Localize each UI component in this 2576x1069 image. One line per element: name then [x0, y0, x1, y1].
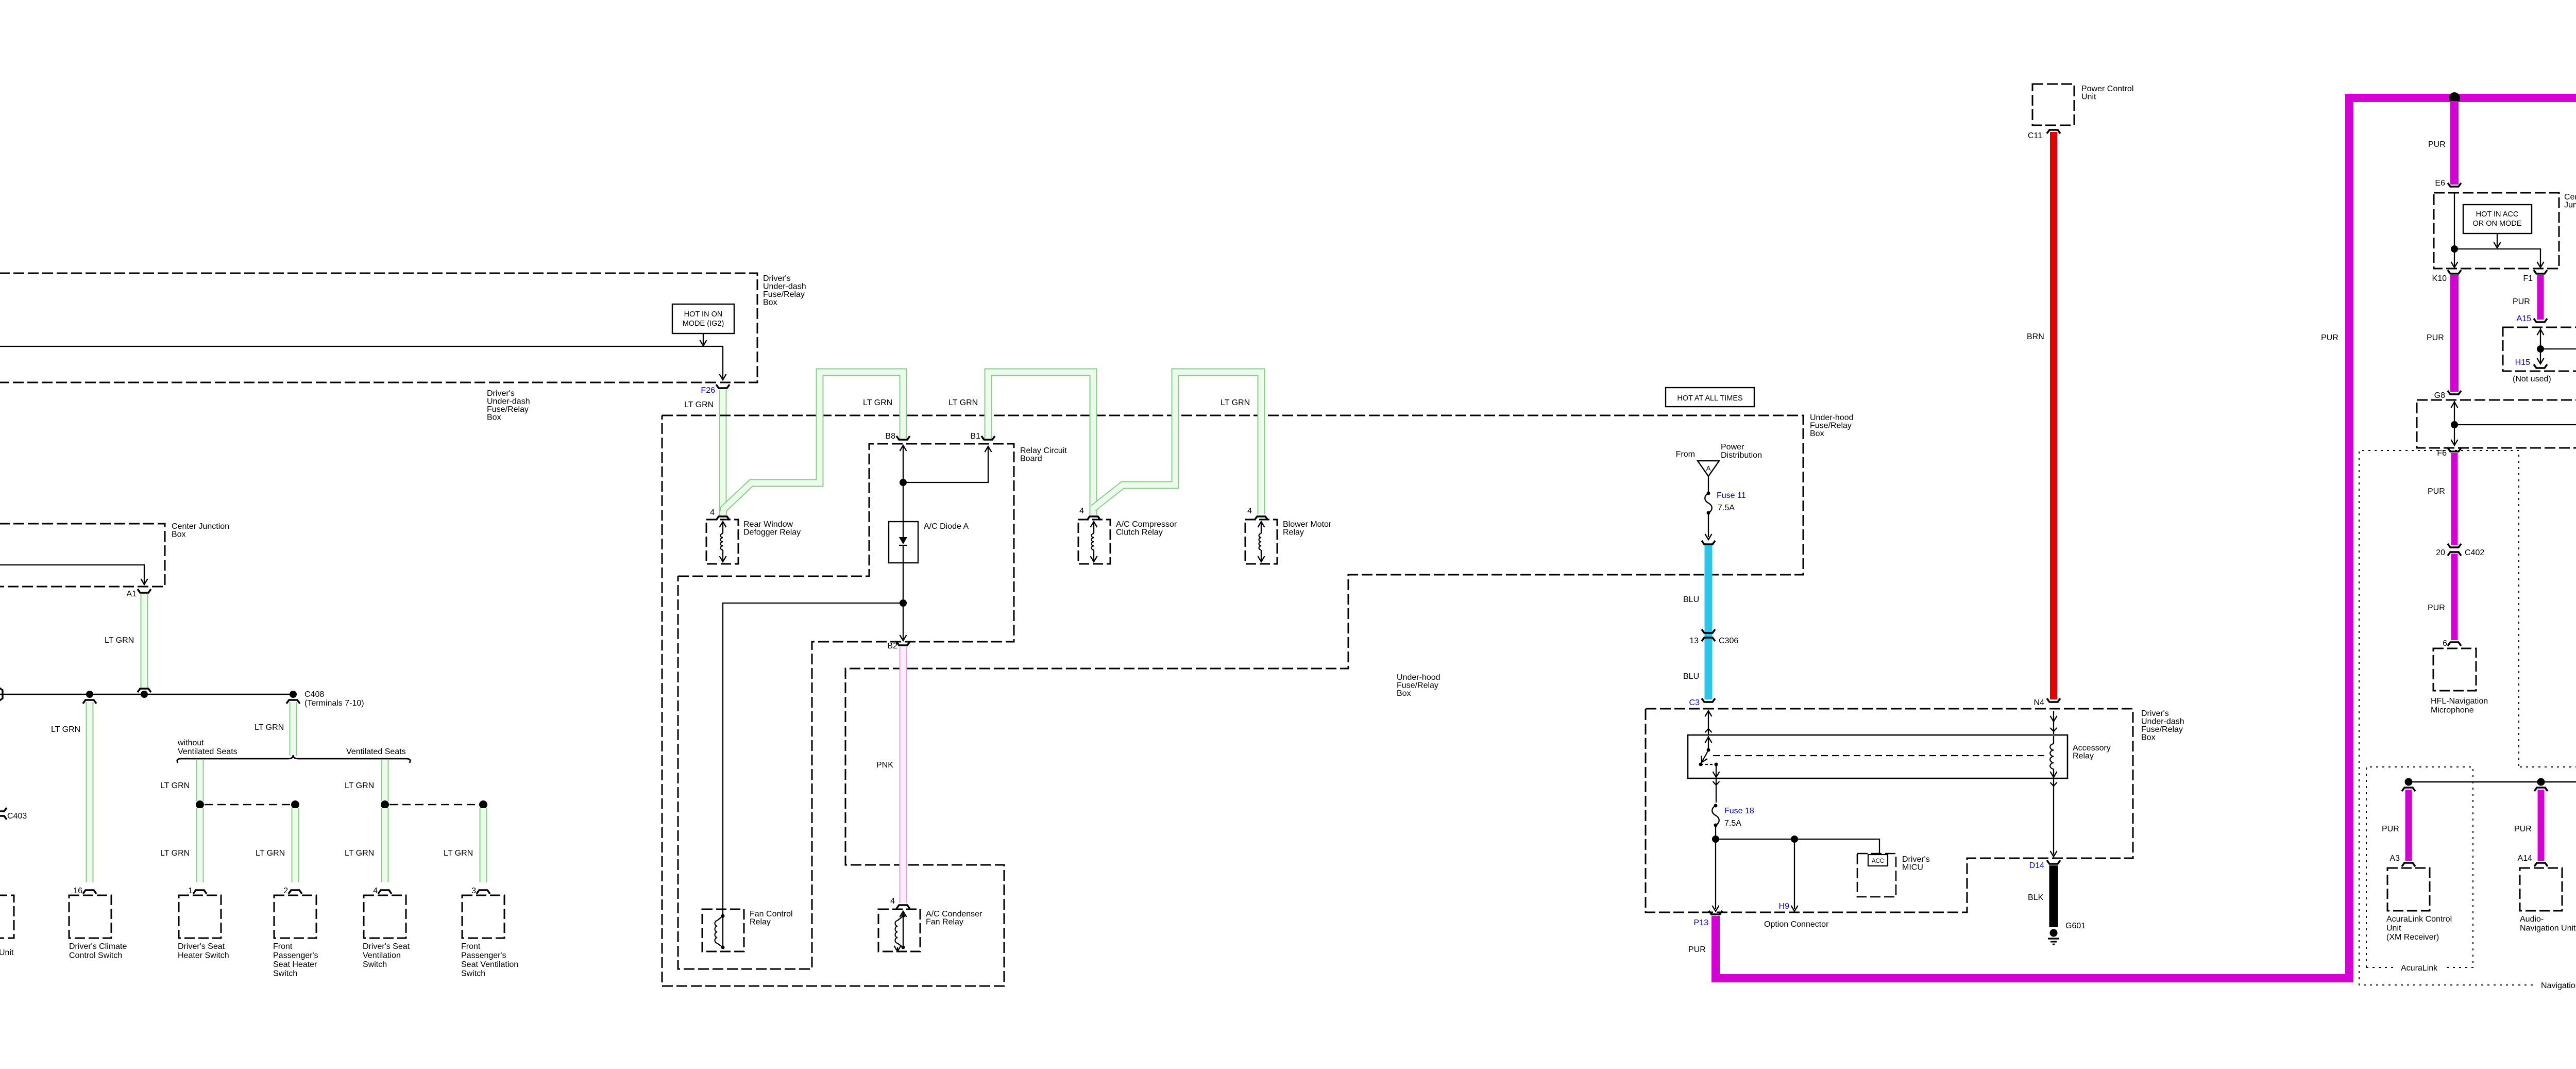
svg-text:4: 4	[710, 508, 715, 517]
svg-text:Accessory: Accessory	[2073, 744, 2111, 753]
svg-text:C402: C402	[2465, 548, 2484, 557]
connector A1	[138, 589, 151, 593]
wire: fuse 18 to P13	[1715, 825, 1716, 909]
svg-text:Seat Heater: Seat Heater	[273, 960, 317, 969]
svg-text:From: From	[1676, 450, 1695, 459]
wire: BRN (red) from C11 to N4	[2050, 132, 2057, 699]
svg-text:AcuraLink: AcuraLink	[2401, 964, 2438, 973]
svg-text:LT GRN: LT GRN	[51, 725, 80, 734]
svg-text:LT GRN: LT GRN	[105, 636, 134, 645]
svg-text:BRN: BRN	[2027, 332, 2044, 341]
wire: branch to ACC / MICU	[1716, 839, 1879, 855]
connector pin 4 (Blower Motor Relay)	[1255, 516, 1268, 520]
wire: LT GRN to Front Passenger's Seat Heater Switch	[292, 808, 299, 882]
svg-text:A: A	[1706, 464, 1711, 472]
svg-text:4: 4	[1247, 507, 1252, 515]
node: junction at option connector branch	[1712, 836, 1719, 843]
wire: LT GRN from B8 over to Rear Window Defogger Relay	[723, 372, 903, 514]
connector: splice A1 to bus	[138, 689, 151, 692]
wire: PUR from F1 to A15	[2537, 275, 2544, 320]
connector pin 3 (Front Passenger's Seat Ventilation Switch)	[477, 890, 490, 894]
svg-text:Microphone: Microphone	[2431, 706, 2474, 715]
box: Driver's Junction Box 2	[2417, 400, 2576, 448]
node: junction H9 branch	[1791, 836, 1798, 843]
svg-text:PUR: PUR	[2427, 333, 2444, 342]
node: bus junction climate switch	[86, 691, 93, 698]
wire: internal bus to K10 and F1	[2454, 249, 2540, 266]
svg-text:Under-dash: Under-dash	[487, 397, 530, 406]
svg-text:C306: C306	[1719, 637, 1738, 645]
component: partially visible unit (left edge)	[0, 895, 14, 938]
accessory relay coil	[2053, 736, 2054, 744]
svg-text:Passenger's: Passenger's	[461, 951, 506, 960]
power source box: HOT IN ON MODE (IG2)	[672, 304, 734, 333]
wire: internal to D21	[2540, 349, 2576, 368]
connector C402 pin 20	[2448, 544, 2461, 547]
wire: internal to A2	[2454, 425, 2576, 445]
wire: LT GRN ventilation feed	[381, 760, 389, 801]
wire: LT GRN from B1 over to A/C Compressor Clutch Relay	[988, 372, 1093, 515]
svg-text:Control Switch: Control Switch	[69, 951, 122, 960]
svg-text:2: 2	[283, 887, 288, 895]
node: junction passenger heater	[291, 800, 299, 809]
svg-text:C3: C3	[1689, 698, 1700, 707]
wire: PUR from C402 to HFL microphone	[2451, 554, 2458, 640]
svg-text:PUR: PUR	[2321, 333, 2338, 342]
connector B2	[896, 642, 910, 645]
svg-text:Center: Center	[2564, 193, 2576, 202]
box: Passenger's Under-dash Fuse/Relay Box	[2503, 327, 2576, 371]
svg-text:F26: F26	[701, 386, 715, 395]
wire: B8 branch inside relay circuit board	[903, 445, 904, 522]
component: Driver's Climate Control Switch	[69, 895, 111, 938]
relay: Rear Window Defogger Relay	[706, 520, 738, 564]
box: Navigation (dotted)	[2359, 450, 2535, 985]
connector P13	[1709, 911, 1722, 914]
node: bus junction A1	[141, 691, 148, 698]
svg-text:HOT AT ALL TIMES: HOT AT ALL TIMES	[1677, 394, 1742, 403]
connector: splice below climate junction	[83, 700, 96, 704]
wire: H9 branch	[1794, 839, 1795, 909]
svg-text:LT GRN: LT GRN	[345, 781, 374, 790]
wire: dashed link vent pair	[389, 804, 479, 806]
svg-text:HFL-Navigation: HFL-Navigation	[2431, 697, 2488, 706]
node: bus junction at Audio-Navigation Unit	[2537, 778, 2545, 786]
wire: G8 to F6	[2454, 401, 2455, 445]
svg-text:Switch: Switch	[461, 970, 485, 978]
bracket: seat variant split (curly brace)	[177, 755, 410, 763]
connector F6	[2448, 448, 2461, 452]
connector pin 4 (A/C Condenser Fan Relay)	[896, 905, 910, 909]
svg-text:BLK: BLK	[2028, 893, 2044, 902]
svg-text:PUR: PUR	[2514, 825, 2532, 833]
wire: branch to B1	[903, 446, 988, 482]
svg-text:D14: D14	[2029, 861, 2044, 870]
wire: diode output down to B2	[903, 563, 904, 639]
svg-text:LT GRN: LT GRN	[684, 400, 714, 409]
connector pin 6 (HFL-Navigation Microphone)	[2448, 642, 2461, 646]
connector F26	[716, 385, 730, 388]
wire: PNK from B2 to A/C Condenser Fan Relay	[900, 647, 907, 903]
component: HFL-Navigation Microphone	[2433, 648, 2476, 691]
wire: C508 bus	[2409, 781, 2576, 783]
wire: E6 into center junction box	[2454, 193, 2455, 249]
wire: LT GRN branch to Blower Motor Relay	[1093, 372, 1261, 514]
component: AcuraLink Control Unit (XM Receiver)	[2387, 868, 2430, 911]
svg-text:Driver's: Driver's	[487, 389, 515, 398]
svg-text:Center Junction: Center Junction	[172, 522, 229, 531]
svg-text:LT GRN: LT GRN	[160, 849, 190, 858]
svg-text:G8: G8	[2434, 391, 2445, 400]
svg-text:Power Control: Power Control	[2081, 85, 2133, 93]
connector N4	[2047, 698, 2060, 702]
node: junction to fan control relay	[900, 599, 907, 607]
svg-text:Navigation Unit: Navigation Unit	[2520, 924, 2576, 933]
connector A15	[2534, 319, 2547, 322]
svg-text:Under-hood: Under-hood	[1810, 413, 1854, 422]
wire: PUR from trunk down to E6	[2450, 101, 2459, 185]
svg-text:3: 3	[471, 887, 476, 895]
power distribution triangle A	[1698, 461, 1719, 476]
svg-text:without: without	[177, 739, 204, 747]
svg-text:F6: F6	[2437, 449, 2447, 458]
svg-text:LT GRN: LT GRN	[948, 398, 978, 407]
svg-text:Relay: Relay	[1283, 528, 1304, 537]
wire: accessory relay coil to D14	[2053, 779, 2054, 855]
svg-text:Driver's Seat: Driver's Seat	[363, 942, 410, 951]
svg-text:F1: F1	[2523, 274, 2533, 283]
node: junction passenger vent	[479, 800, 487, 809]
wire: PUR drop to AcuraLink Control Unit (XM Receiver)	[2405, 790, 2412, 861]
svg-text:Passenger's: Passenger's	[273, 951, 318, 960]
connector pin 1 (Driver's Seat Heater Switch)	[193, 890, 207, 894]
svg-text:LT GRN: LT GRN	[1221, 398, 1250, 407]
svg-text:AcuraLink Control: AcuraLink Control	[2386, 915, 2452, 924]
svg-text:Under-dash: Under-dash	[2141, 717, 2184, 726]
relay: Accessory Relay (box)	[1688, 735, 2067, 778]
wire: N4 to accessory relay coil	[2053, 711, 2054, 734]
svg-text:(Not used): (Not used)	[2513, 375, 2551, 383]
svg-text:ACC: ACC	[1872, 858, 1884, 864]
connector C3	[1702, 698, 1715, 702]
svg-text:Fuse/Relay: Fuse/Relay	[763, 290, 805, 299]
svg-text:6: 6	[2443, 639, 2447, 648]
svg-text:Box: Box	[172, 530, 186, 539]
connector G8	[2448, 391, 2461, 394]
svg-text:(XM Receiver): (XM Receiver)	[2386, 933, 2439, 942]
svg-text:Option Connector: Option Connector	[1764, 920, 1829, 929]
svg-text:Relay: Relay	[750, 918, 771, 927]
svg-text:Switch: Switch	[363, 960, 387, 969]
svg-text:Fan Relay: Fan Relay	[926, 918, 963, 927]
svg-text:Under-hood: Under-hood	[1397, 673, 1440, 682]
svg-text:Seat Ventilation: Seat Ventilation	[461, 960, 518, 969]
svg-text:Relay Circuit: Relay Circuit	[1020, 446, 1067, 455]
svg-text:B8: B8	[885, 432, 895, 441]
svg-text:G601: G601	[2065, 922, 2086, 930]
connector: splice below C408	[286, 700, 300, 704]
box: Under-hood Fuse/Relay Box (staircase dashed outline)	[662, 415, 1803, 986]
svg-text:Driver's Seat: Driver's Seat	[178, 942, 225, 951]
svg-text:7.5A: 7.5A	[1718, 504, 1735, 512]
connector pin A14 (Audio-Navigation Unit)	[2534, 863, 2548, 866]
svg-text:Driver's: Driver's	[763, 274, 791, 283]
svg-text:MICU: MICU	[1902, 863, 1923, 872]
svg-text:Unit: Unit	[2386, 924, 2401, 933]
box: AcuraLink (dotted)	[2366, 767, 2473, 967]
node: junction on PUR trunk at E6 branch	[2449, 92, 2460, 104]
svg-text:Fuse 18: Fuse 18	[1724, 807, 1754, 815]
power source box: HOT AT ALL TIMES	[1666, 388, 1754, 407]
svg-text:C11: C11	[2028, 131, 2042, 140]
svg-text:Driver's: Driver's	[2141, 709, 2169, 718]
wire: branch to Fan Control Relay	[723, 603, 903, 909]
wire: accessory relay contact output to fuse 18	[1716, 764, 1717, 803]
wire: LT GRN from F26 to Rear Window Defogger Relay pin 4	[719, 390, 727, 515]
svg-text:Driver's: Driver's	[1902, 855, 1930, 864]
svg-text:Navigation: Navigation	[2541, 981, 2576, 990]
component: Driver's Seat Ventilation Switch	[364, 895, 406, 938]
wire: IG2 feed inside under-dash box	[0, 346, 723, 378]
connector: bus splice above AcuraLink Control Unit (XM Receiver)	[2402, 788, 2415, 791]
svg-text:H9: H9	[1779, 902, 1790, 911]
svg-text:PUR: PUR	[2428, 604, 2445, 612]
svg-text:Relay: Relay	[2073, 752, 2094, 761]
component: Front Passenger's Seat Heater Switch	[274, 895, 316, 938]
svg-text:A1: A1	[126, 590, 137, 598]
connector D14	[2047, 860, 2060, 864]
connector B1	[981, 436, 995, 440]
svg-text:LT GRN: LT GRN	[444, 849, 473, 858]
svg-text:P13: P13	[1694, 918, 1709, 927]
power source box: HOT IN ACC OR ON MODE	[2463, 205, 2532, 233]
svg-text:MODE (IG2): MODE (IG2)	[683, 320, 724, 328]
svg-text:Switch: Switch	[273, 970, 297, 978]
node: bus junction C408	[290, 691, 297, 698]
node: junction heater pair	[196, 800, 204, 809]
svg-text:LT GRN: LT GRN	[345, 849, 374, 858]
component: Audio-Navigation Unit	[2520, 868, 2562, 911]
connector pin 2 (Front Passenger's Seat Heater Switch)	[289, 890, 302, 894]
wire: dashed link heater pair	[205, 804, 291, 806]
svg-text:A/C Compressor: A/C Compressor	[1116, 520, 1177, 529]
wire: LT GRN to Driver's Seat Ventilation Switch	[381, 808, 389, 882]
diode: A/C Diode A	[889, 522, 918, 563]
svg-text:Box: Box	[2141, 733, 2156, 742]
svg-text:16: 16	[73, 887, 82, 895]
svg-text:A15: A15	[2517, 314, 2532, 323]
svg-text:Box: Box	[763, 298, 777, 307]
svg-text:Fuse/Relay: Fuse/Relay	[487, 405, 529, 414]
svg-text:B1: B1	[970, 432, 980, 441]
connector F1	[2534, 270, 2547, 274]
connector: bus splice above Audio-Navigation Unit	[2534, 788, 2548, 791]
wire: LT GRN heater switch feed	[196, 760, 204, 801]
connector: under-hood box output to BLU wire	[1702, 541, 1715, 544]
connector: bus start (left edge)	[0, 688, 3, 701]
wire: LT GRN from C408 to seat branch	[290, 702, 297, 756]
svg-text:(Terminals 7-10): (Terminals 7-10)	[304, 699, 364, 708]
svg-text:7.5A: 7.5A	[1724, 819, 1741, 828]
svg-text:13: 13	[1689, 637, 1699, 645]
wire: seat accessory bus	[0, 694, 293, 695]
svg-text:Ventilated Seats: Ventilated Seats	[178, 747, 238, 756]
wire: PUR from F6 to C402	[2451, 453, 2458, 545]
svg-text:Front: Front	[461, 942, 481, 951]
svg-text:K10: K10	[2432, 274, 2447, 283]
svg-text:Box: Box	[1397, 689, 1411, 698]
svg-text:C403: C403	[7, 812, 27, 821]
connector pin 4 (Driver's Seat Ventilation Switch)	[378, 890, 392, 894]
svg-text:PUR: PUR	[2428, 140, 2446, 149]
node: junction vent pair	[381, 800, 389, 809]
svg-text:H15: H15	[2515, 358, 2530, 367]
svg-text:Board: Board	[1020, 455, 1042, 463]
svg-text:Power: Power	[1721, 443, 1744, 452]
wire: C3 to accessory relay contact	[1708, 711, 1709, 735]
connector B8	[896, 436, 910, 440]
wire: BLU from under-hood box to C3	[1705, 545, 1713, 699]
connector K10	[2448, 270, 2461, 274]
svg-text:Ventilation: Ventilation	[363, 951, 401, 960]
svg-text:Fuse/Relay: Fuse/Relay	[1810, 422, 1852, 430]
svg-text:Ventilated Seats: Ventilated Seats	[346, 747, 406, 756]
connector C306 pin 13	[1702, 629, 1715, 633]
svg-text:E6: E6	[2435, 179, 2445, 188]
svg-text:BLU: BLU	[1683, 595, 1699, 604]
relay: Fan Control Relay	[702, 909, 744, 951]
svg-text:LT GRN: LT GRN	[256, 849, 285, 858]
relay: A/C Condenser Fan Relay	[878, 909, 920, 951]
wire: down to K10	[2454, 249, 2455, 266]
svg-text:Fan Control: Fan Control	[750, 910, 793, 918]
box: Center Junction Box (left)	[0, 524, 165, 587]
node: junction to D21	[2537, 345, 2544, 353]
svg-text:Driver's Climate: Driver's Climate	[69, 942, 127, 951]
wire: LT GRN to Front Passenger's Seat Ventilation Switch	[480, 808, 487, 882]
svg-text:20: 20	[2436, 548, 2445, 557]
connector pin 16 (Driver's Climate Control Switch)	[83, 890, 96, 894]
wire: LT GRN to Driver's Seat Heater Switch	[196, 808, 204, 882]
svg-text:Box: Box	[487, 413, 501, 422]
svg-text:LT GRN: LT GRN	[160, 781, 190, 790]
connector E6	[2448, 183, 2461, 187]
box: Driver's Under-dash Fuse/Relay Box (top left)	[0, 273, 757, 382]
component: Power Control Unit	[2032, 84, 2074, 125]
relay: A/C Compressor Clutch Relay	[1078, 520, 1110, 564]
box: Relay Circuit Board / inner under-hood compartment	[678, 444, 1014, 969]
svg-text:4: 4	[1079, 507, 1084, 515]
svg-text:A/C Diode A: A/C Diode A	[924, 522, 969, 531]
connector pin 4 (A/C Compressor Clutch Relay)	[1087, 516, 1100, 520]
svg-text:1: 1	[188, 887, 193, 895]
svg-text:4: 4	[890, 897, 895, 906]
svg-text:OR ON MODE: OR ON MODE	[2472, 220, 2521, 228]
wire: fuse 11 output	[1708, 513, 1709, 537]
svg-text:LT GRN: LT GRN	[255, 723, 284, 732]
svg-text:PUR: PUR	[2382, 825, 2399, 833]
svg-text:Front: Front	[273, 942, 293, 951]
node: bus junction at AcuraLink Control Unit (XM Receiver)	[2405, 778, 2413, 786]
component: Front Passenger's Seat Ventilation Switch	[462, 895, 504, 938]
svg-text:PUR: PUR	[2428, 487, 2445, 496]
accessory relay contact	[1708, 736, 1709, 750]
svg-text:Heater Switch: Heater Switch	[178, 951, 229, 960]
wire: HOT IN ACC box to bus	[2497, 233, 2498, 246]
component: Driver's MICU (ACC)	[1857, 854, 1896, 897]
wire: from HOT IN ON MODE box down to bus	[703, 333, 704, 344]
connector pin A3 (AcuraLink Control Unit (XM Receiver))	[2402, 863, 2415, 866]
svg-text:Fuse/Relay: Fuse/Relay	[1397, 681, 1438, 690]
svg-text:A14: A14	[2518, 854, 2533, 863]
svg-text:Audio-: Audio-	[2520, 915, 2544, 924]
svg-text:BLU: BLU	[1683, 672, 1699, 681]
svg-text:A/C Condenser: A/C Condenser	[926, 910, 982, 918]
connector C403 (left edge)	[0, 808, 7, 811]
wire: triangle to fuse 11	[1708, 476, 1709, 493]
svg-text:N4: N4	[2034, 698, 2045, 707]
svg-text:B2: B2	[887, 642, 897, 650]
svg-text:Clutch Relay: Clutch Relay	[1116, 528, 1163, 537]
svg-text:4: 4	[373, 887, 378, 895]
wire: PUR trunk from P13 across and up to top right	[1716, 98, 2576, 978]
svg-text:Fuse 11: Fuse 11	[1717, 491, 1746, 500]
wire: LT GRN from A1 to bus	[141, 594, 148, 688]
wire: LT GRN to Driver's Climate Control Switch	[86, 702, 94, 882]
svg-text:HOT IN ACC: HOT IN ACC	[2476, 210, 2519, 219]
svg-text:LT GRN: LT GRN	[863, 398, 892, 407]
svg-text:Fuse/Relay: Fuse/Relay	[2141, 725, 2183, 734]
wire: center junction internal to A1	[0, 565, 144, 583]
fuse: Fuse 18 7.5A	[1714, 804, 1718, 808]
box: Center Junction Box (right)	[2434, 193, 2559, 269]
connector C11	[2047, 130, 2060, 133]
svg-text:A3: A3	[2389, 854, 2400, 863]
svg-text:Under-dash: Under-dash	[763, 282, 806, 291]
svg-text:HOT IN ON: HOT IN ON	[684, 310, 723, 319]
box: Driver's Under-dash Fuse/Relay Box (accessory relay)	[1646, 709, 2133, 912]
node: junction to A2	[2451, 421, 2458, 428]
svg-text:Defogger Relay: Defogger Relay	[743, 528, 801, 537]
svg-text:PUR: PUR	[2513, 297, 2530, 306]
svg-text:Rear Window: Rear Window	[743, 520, 793, 529]
svg-text:C408: C408	[304, 690, 324, 699]
svg-text:Blower Motor: Blower Motor	[1283, 520, 1332, 529]
svg-text:Box: Box	[1810, 429, 1824, 438]
svg-text:PNK: PNK	[876, 761, 893, 770]
component: Driver's Seat Heater Switch	[179, 895, 221, 938]
wire: PUR drop to Audio-Navigation Unit	[2538, 790, 2545, 861]
connector pin 4 (Rear Window Defogger Relay)	[716, 516, 730, 520]
wire: PUR from K10 to G8	[2450, 275, 2459, 392]
wire: BLK from D14 to ground	[2049, 865, 2058, 927]
node: junction on B8 wire	[900, 479, 907, 486]
svg-text:Unit: Unit	[0, 948, 14, 957]
svg-text:Junction Box: Junction Box	[2564, 201, 2576, 210]
relay: Blower Motor Relay	[1245, 520, 1277, 564]
svg-text:Distribution: Distribution	[1721, 451, 1762, 460]
svg-text:PUR: PUR	[1688, 945, 1706, 954]
ground G601	[2050, 929, 2058, 937]
node: junction at K10	[2451, 245, 2458, 253]
wire: A15 to H15 (not used)	[2540, 328, 2541, 363]
svg-text:Unit: Unit	[2081, 93, 2096, 102]
fuse: Fuse 11 7.5A	[1707, 492, 1710, 495]
connector H15	[2534, 364, 2547, 368]
